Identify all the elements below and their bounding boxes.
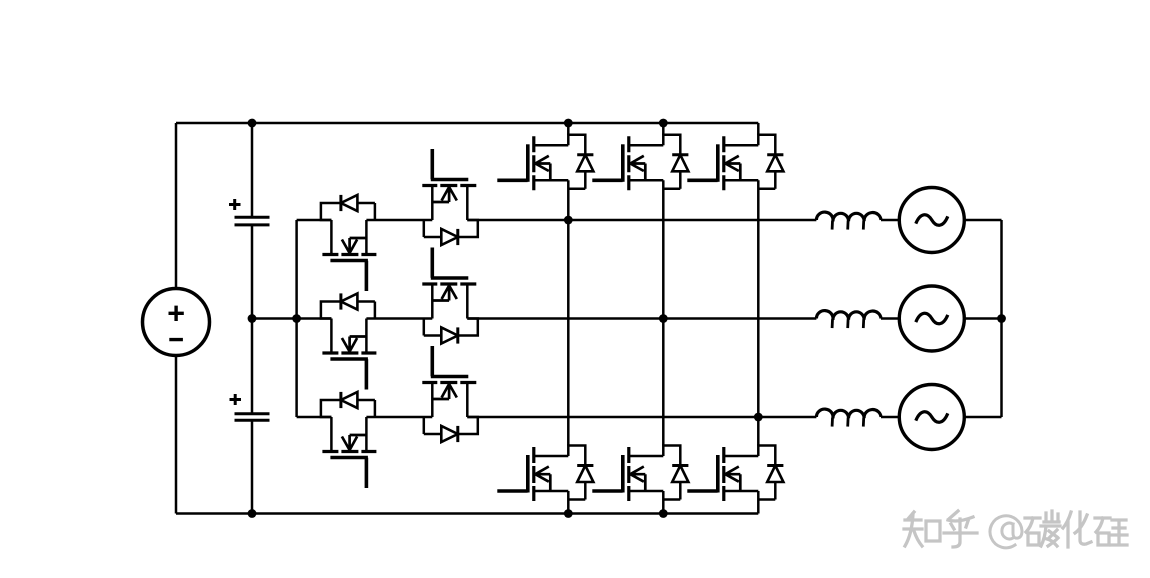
wire: phase B lead bus to Q7 — [297, 317, 332, 320]
node: bottom rail / cap bus — [248, 509, 257, 518]
glyph 乎 — [944, 511, 977, 547]
wire: phase C line to inductor — [467, 416, 816, 419]
wire: Q13 drain to phase C line — [757, 417, 760, 446]
wire: neutral bus — [1000, 220, 1003, 417]
inductor L2 (phase B) — [816, 311, 881, 329]
MOSFET Q6 (bidir right, phase A) — [422, 149, 478, 245]
wire: cap bus C2 to bottom rail — [251, 421, 254, 514]
wire: Q3 drain to top rail — [757, 123, 760, 135]
wire: G1 to neutral bus — [964, 219, 1001, 222]
MOSFET Q3 (top, phase C) — [687, 135, 783, 191]
inductor L3 (phase C) — [816, 409, 881, 427]
AC source G1 (phase A) — [899, 188, 964, 253]
node: top rail / Q2 drain — [659, 119, 668, 128]
wire: Q12 drain to phase B line — [662, 319, 665, 446]
node: bottom rail / Q12 source — [659, 509, 668, 518]
wire: midpoint link — [252, 317, 297, 320]
wire: L3 to AC source — [881, 416, 899, 419]
MOSFET Q2 (top, phase B) — [592, 135, 688, 191]
wire: Q11 source to bottom rail — [567, 491, 570, 514]
watermark: 知乎 @碳化硅 — [904, 511, 1127, 548]
wire: left vertical from top rail to DC source — [175, 123, 178, 289]
inductor L1 (phase A) — [816, 212, 881, 230]
AC source G2 (phase B) — [899, 286, 964, 351]
wire: Q1 source to phase A line — [567, 180, 570, 220]
node: bottom rail / Q11 source — [564, 509, 573, 518]
glyph 碳 — [1025, 518, 1040, 545]
node: midpoint bus junction — [292, 314, 301, 323]
wire: left vertical from DC source to bottom rail — [175, 356, 178, 514]
MOSFET Q5 (bidir left, phase A) — [321, 195, 377, 291]
wire: phase A common-source link — [366, 219, 432, 222]
wire: Q12 source to bottom rail — [662, 491, 665, 514]
wire: Q13 source to bottom rail — [757, 491, 760, 514]
wire: Q3 source to phase C line — [757, 180, 760, 417]
wire: DC- bottom rail — [176, 512, 758, 515]
MOSFET Q10 (bidir right, phase C) — [422, 346, 478, 442]
wire: phase B common-source link — [366, 317, 432, 320]
capacitor C1 — [229, 199, 270, 225]
wire: phase C common-source link — [366, 416, 432, 419]
wire: Q2 source to phase B line — [662, 180, 665, 318]
wire: phase B line to inductor — [467, 317, 816, 320]
MOSFET Q9 (bidir left, phase C) — [321, 392, 377, 488]
DC voltage source V1 — [143, 289, 210, 356]
node: phase C junction — [754, 413, 763, 422]
glyph @ — [990, 516, 1022, 548]
wire: G3 to neutral bus — [964, 416, 1001, 419]
MOSFET Q1 (top, phase A) — [497, 135, 593, 191]
wire: phase A line to inductor — [467, 219, 816, 222]
node: cap midpoint — [248, 314, 257, 323]
node: top rail / cap bus — [248, 119, 257, 128]
node: neutral bus / G2 — [997, 314, 1006, 323]
wire: G2 to neutral bus — [964, 317, 1001, 320]
wire: L1 to AC source — [881, 219, 899, 222]
wire: Q1 drain to top rail — [567, 123, 570, 135]
node: phase B junction — [659, 314, 668, 323]
glyph 化 — [1063, 512, 1091, 547]
capacitor C2 — [230, 394, 270, 420]
AC source G3 (phase C) — [899, 385, 964, 450]
MOSFET Q11 (bottom, phase A) — [497, 446, 593, 502]
glyph 硅 — [1095, 518, 1110, 545]
wire: DC+ top rail — [176, 122, 758, 125]
glyph 知 — [904, 512, 922, 546]
MOSFET Q13 (bottom, phase C) — [687, 446, 783, 502]
wire: phase A lead bus to Q5 — [297, 219, 332, 222]
MOSFET Q8 (bidir right, phase B) — [422, 248, 478, 344]
wire: Q11 drain to phase A line — [567, 220, 570, 446]
wire: Q2 drain to top rail — [662, 123, 665, 135]
wire: midpoint vertical bus — [295, 220, 298, 417]
node: phase A junction — [564, 216, 573, 225]
node: top rail / Q1 drain — [564, 119, 573, 128]
MOSFET Q7 (bidir left, phase B) — [321, 293, 377, 389]
wire: L2 to AC source — [881, 317, 899, 320]
wire: phase C lead bus to Q9 — [297, 416, 332, 419]
MOSFET Q12 (bottom, phase B) — [592, 446, 688, 502]
wire: cap bus from top rail to C1 — [251, 123, 254, 217]
wire: cap bus C1 to C2 — [251, 225, 254, 413]
